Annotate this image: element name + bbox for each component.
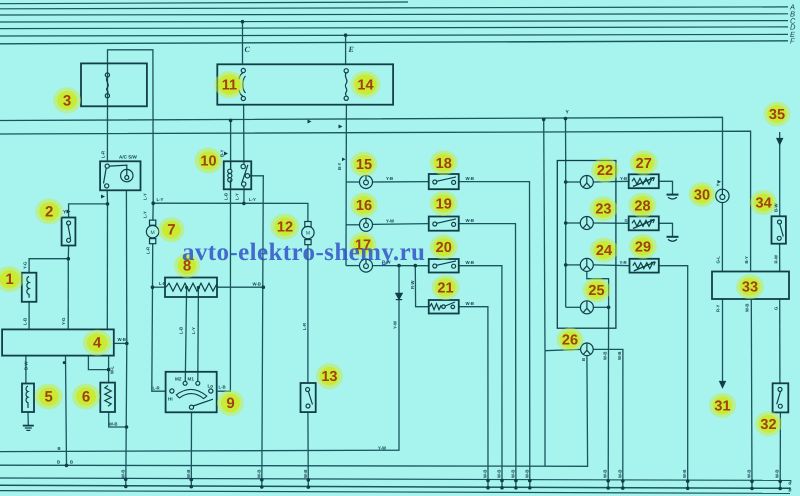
svg-text:W-B: W-B [121,469,126,478]
svg-text:W-B: W-B [109,422,118,427]
svg-text:W-B: W-B [603,469,608,478]
svg-text:18: 18 [436,156,452,172]
svg-text:B-W: B-W [24,360,29,370]
svg-text:28: 28 [634,198,650,214]
svg-text:W-B: W-B [497,469,502,478]
svg-text:W-B: W-B [466,218,475,223]
svg-text:20: 20 [436,240,452,256]
svg-text:W-L: W-L [110,366,115,374]
svg-text:W-B: W-B [253,282,262,287]
svg-text:R-W: R-W [410,279,415,289]
svg-text:B: B [58,446,61,451]
svg-text:3: 3 [63,92,71,109]
svg-text:Y-G: Y-G [23,261,28,269]
svg-text:L-Y: L-Y [157,197,164,202]
svg-text:Y-G: Y-G [61,317,66,325]
svg-text:33: 33 [742,280,758,296]
svg-text:34: 34 [756,196,772,212]
svg-text:W-B: W-B [747,469,752,478]
svg-text:1: 1 [5,271,13,288]
svg-text:W-B: W-B [483,469,488,478]
svg-text:29: 29 [635,240,651,256]
svg-text:5: 5 [45,389,53,406]
svg-text:W-B: W-B [525,469,530,478]
svg-text:L-B: L-B [179,327,184,334]
svg-text:14: 14 [357,78,373,94]
svg-text:15: 15 [356,157,372,173]
svg-text:B-Y: B-Y [220,149,225,157]
svg-text:W-B: W-B [617,351,622,360]
svg-text:W-B: W-B [186,469,191,478]
svg-text:M: M [306,231,310,237]
svg-text:B-Y: B-Y [744,256,749,264]
svg-text:10: 10 [200,154,216,170]
svg-text:R-W: R-W [774,254,779,264]
svg-text:L-B: L-B [219,385,226,390]
svg-text:Y-W: Y-W [386,219,395,224]
svg-text:13: 13 [321,369,337,385]
svg-text:32: 32 [760,417,776,433]
svg-text:L-Y: L-Y [249,197,256,202]
svg-text:W-B: W-B [511,469,516,478]
svg-text:19: 19 [436,197,452,213]
svg-text:31: 31 [714,398,730,414]
svg-text:b: b [789,487,792,494]
svg-text:7: 7 [167,222,175,239]
svg-text:23: 23 [595,202,611,218]
svg-text:L-Y: L-Y [191,327,196,334]
svg-text:W-B: W-B [466,301,475,306]
svg-text:L-R: L-R [101,150,106,158]
svg-text:4: 4 [93,335,102,352]
svg-text:avto-elektro-shemy.ru: avto-elektro-shemy.ru [182,239,425,266]
svg-text:A/C S/W: A/C S/W [119,155,138,160]
svg-text:30: 30 [694,188,710,204]
svg-text:W-B: W-B [618,469,623,478]
svg-text:HI: HI [168,396,173,401]
svg-text:L-R: L-R [153,386,161,391]
svg-text:M: M [151,230,155,236]
svg-text:Y-B: Y-B [620,176,627,181]
svg-text:E: E [348,45,354,54]
svg-text:11: 11 [222,78,237,94]
svg-text:G-L: G-L [716,256,721,264]
svg-text:L-Y: L-Y [235,193,240,200]
svg-text:16: 16 [356,198,372,214]
svg-text:L-B: L-B [23,318,28,325]
svg-text:W-B: W-B [257,469,262,478]
svg-text:W-B: W-B [303,469,308,478]
svg-text:35: 35 [769,107,785,123]
svg-text:F: F [790,37,795,46]
svg-text:M2: M2 [175,377,182,382]
svg-text:B-Y: B-Y [337,162,342,170]
svg-text:W-B: W-B [118,337,127,342]
svg-text:27: 27 [636,156,652,172]
svg-text:L-R: L-R [159,281,167,286]
svg-text:B: B [581,358,586,361]
svg-text:L-R: L-R [146,246,151,254]
svg-text:12: 12 [277,220,293,236]
svg-text:W-B: W-B [603,351,608,360]
svg-text:L-Y: L-Y [143,193,148,200]
svg-text:B: B [57,460,60,465]
svg-text:25: 25 [588,283,604,299]
svg-text:R-Y: R-Y [716,304,721,312]
svg-text:21: 21 [437,281,453,297]
svg-text:L-B: L-B [224,193,229,200]
svg-text:Lo: Lo [208,384,214,389]
svg-text:Y-W: Y-W [378,446,387,451]
svg-text:M1: M1 [188,377,195,382]
svg-text:W-B: W-B [775,469,780,478]
svg-text:C: C [245,45,251,54]
svg-text:W-B: W-B [745,303,750,312]
svg-text:W-B: W-B [466,176,475,181]
svg-text:Y: Y [716,184,721,187]
svg-text:24: 24 [596,243,612,259]
svg-text:L-Y: L-Y [143,211,148,218]
svg-text:Y-B: Y-B [386,176,393,181]
svg-text:26: 26 [562,333,578,349]
svg-text:B-W: B-W [774,202,779,212]
svg-text:Y-R: Y-R [620,260,628,265]
svg-text:Y-W: Y-W [393,320,398,329]
svg-text:L-R: L-R [302,322,307,330]
svg-text:B: B [70,460,73,465]
svg-text:W-B: W-B [682,469,687,478]
svg-text:9: 9 [226,395,234,412]
svg-text:W-B: W-B [466,260,475,265]
svg-text:2: 2 [45,203,53,220]
svg-text:6: 6 [82,389,90,406]
svg-text:22: 22 [597,163,613,179]
